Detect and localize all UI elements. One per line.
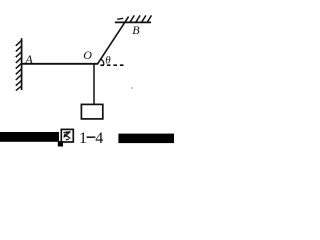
svg-text:O: O [83,48,92,62]
black tab below caption char [58,141,63,147]
caption character tu (drawn) [61,129,73,142]
ceiling (top fixed support) [115,15,152,22]
left black bar [0,132,59,142]
svg-text:1: 1 [79,130,87,147]
caption dash [87,136,96,138]
faint speck [131,87,133,89]
string O-B [97,17,128,65]
weight box [81,104,102,119]
angle arc at O [101,59,104,65]
dashed line from O [100,64,123,66]
wall (left fixed support) [16,38,22,90]
right black bar [118,134,174,144]
svg-text:B: B [132,23,140,37]
rod A-O [22,63,98,65]
svg-text:4: 4 [95,130,103,147]
svg-text:A: A [24,52,33,66]
string O to weight [93,65,95,105]
